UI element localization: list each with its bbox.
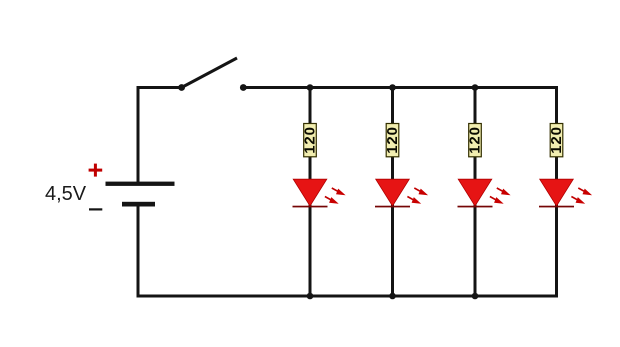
node: top junction branch 3 (472, 84, 479, 91)
svg-text:120: 120 (384, 126, 401, 153)
svg-text:120: 120 (302, 126, 319, 153)
resistor R1 (120) (302, 124, 319, 157)
wire: bottom bus (137, 295, 559, 298)
wire: branch 1 vertical (309, 86, 312, 296)
wire: branch 3 vertical (474, 86, 477, 296)
LED D4 (539, 179, 592, 207)
battery V1 (106, 182, 175, 207)
svg-text:120: 120 (467, 126, 484, 153)
label: 4,5V (45, 183, 87, 205)
node: top junction branch 2 (389, 84, 396, 91)
wire: branch 4 vertical (555, 86, 558, 296)
switch S1 (178, 58, 247, 91)
wire: top bus from switch contact to top-right corner (242, 86, 558, 89)
node: bottom junction branch 1 (307, 293, 314, 300)
LED D2 (375, 179, 428, 207)
svg-text:4,5V: 4,5V (45, 183, 87, 205)
node: top junction branch 1 (307, 84, 314, 91)
resistor R3 (120) (467, 124, 484, 157)
svg-text:120: 120 (548, 126, 565, 153)
wire: left vertical, corner down to battery + plate (137, 86, 140, 182)
node: bottom junction branch 2 (389, 293, 396, 300)
wire: branch 2 vertical (391, 86, 394, 296)
LED D1 (293, 179, 346, 207)
wire: battery - plate down to bottom-left corner (137, 207, 140, 298)
node: bottom junction branch 3 (472, 293, 479, 300)
label: minus sign (89, 208, 102, 210)
wire: top-left segment from battery corner to switch pole (137, 86, 184, 89)
label: plus sign (89, 164, 103, 177)
LED D3 (458, 179, 511, 207)
resistor R2 (120) (384, 124, 401, 157)
resistor R4 (120) (548, 124, 565, 157)
